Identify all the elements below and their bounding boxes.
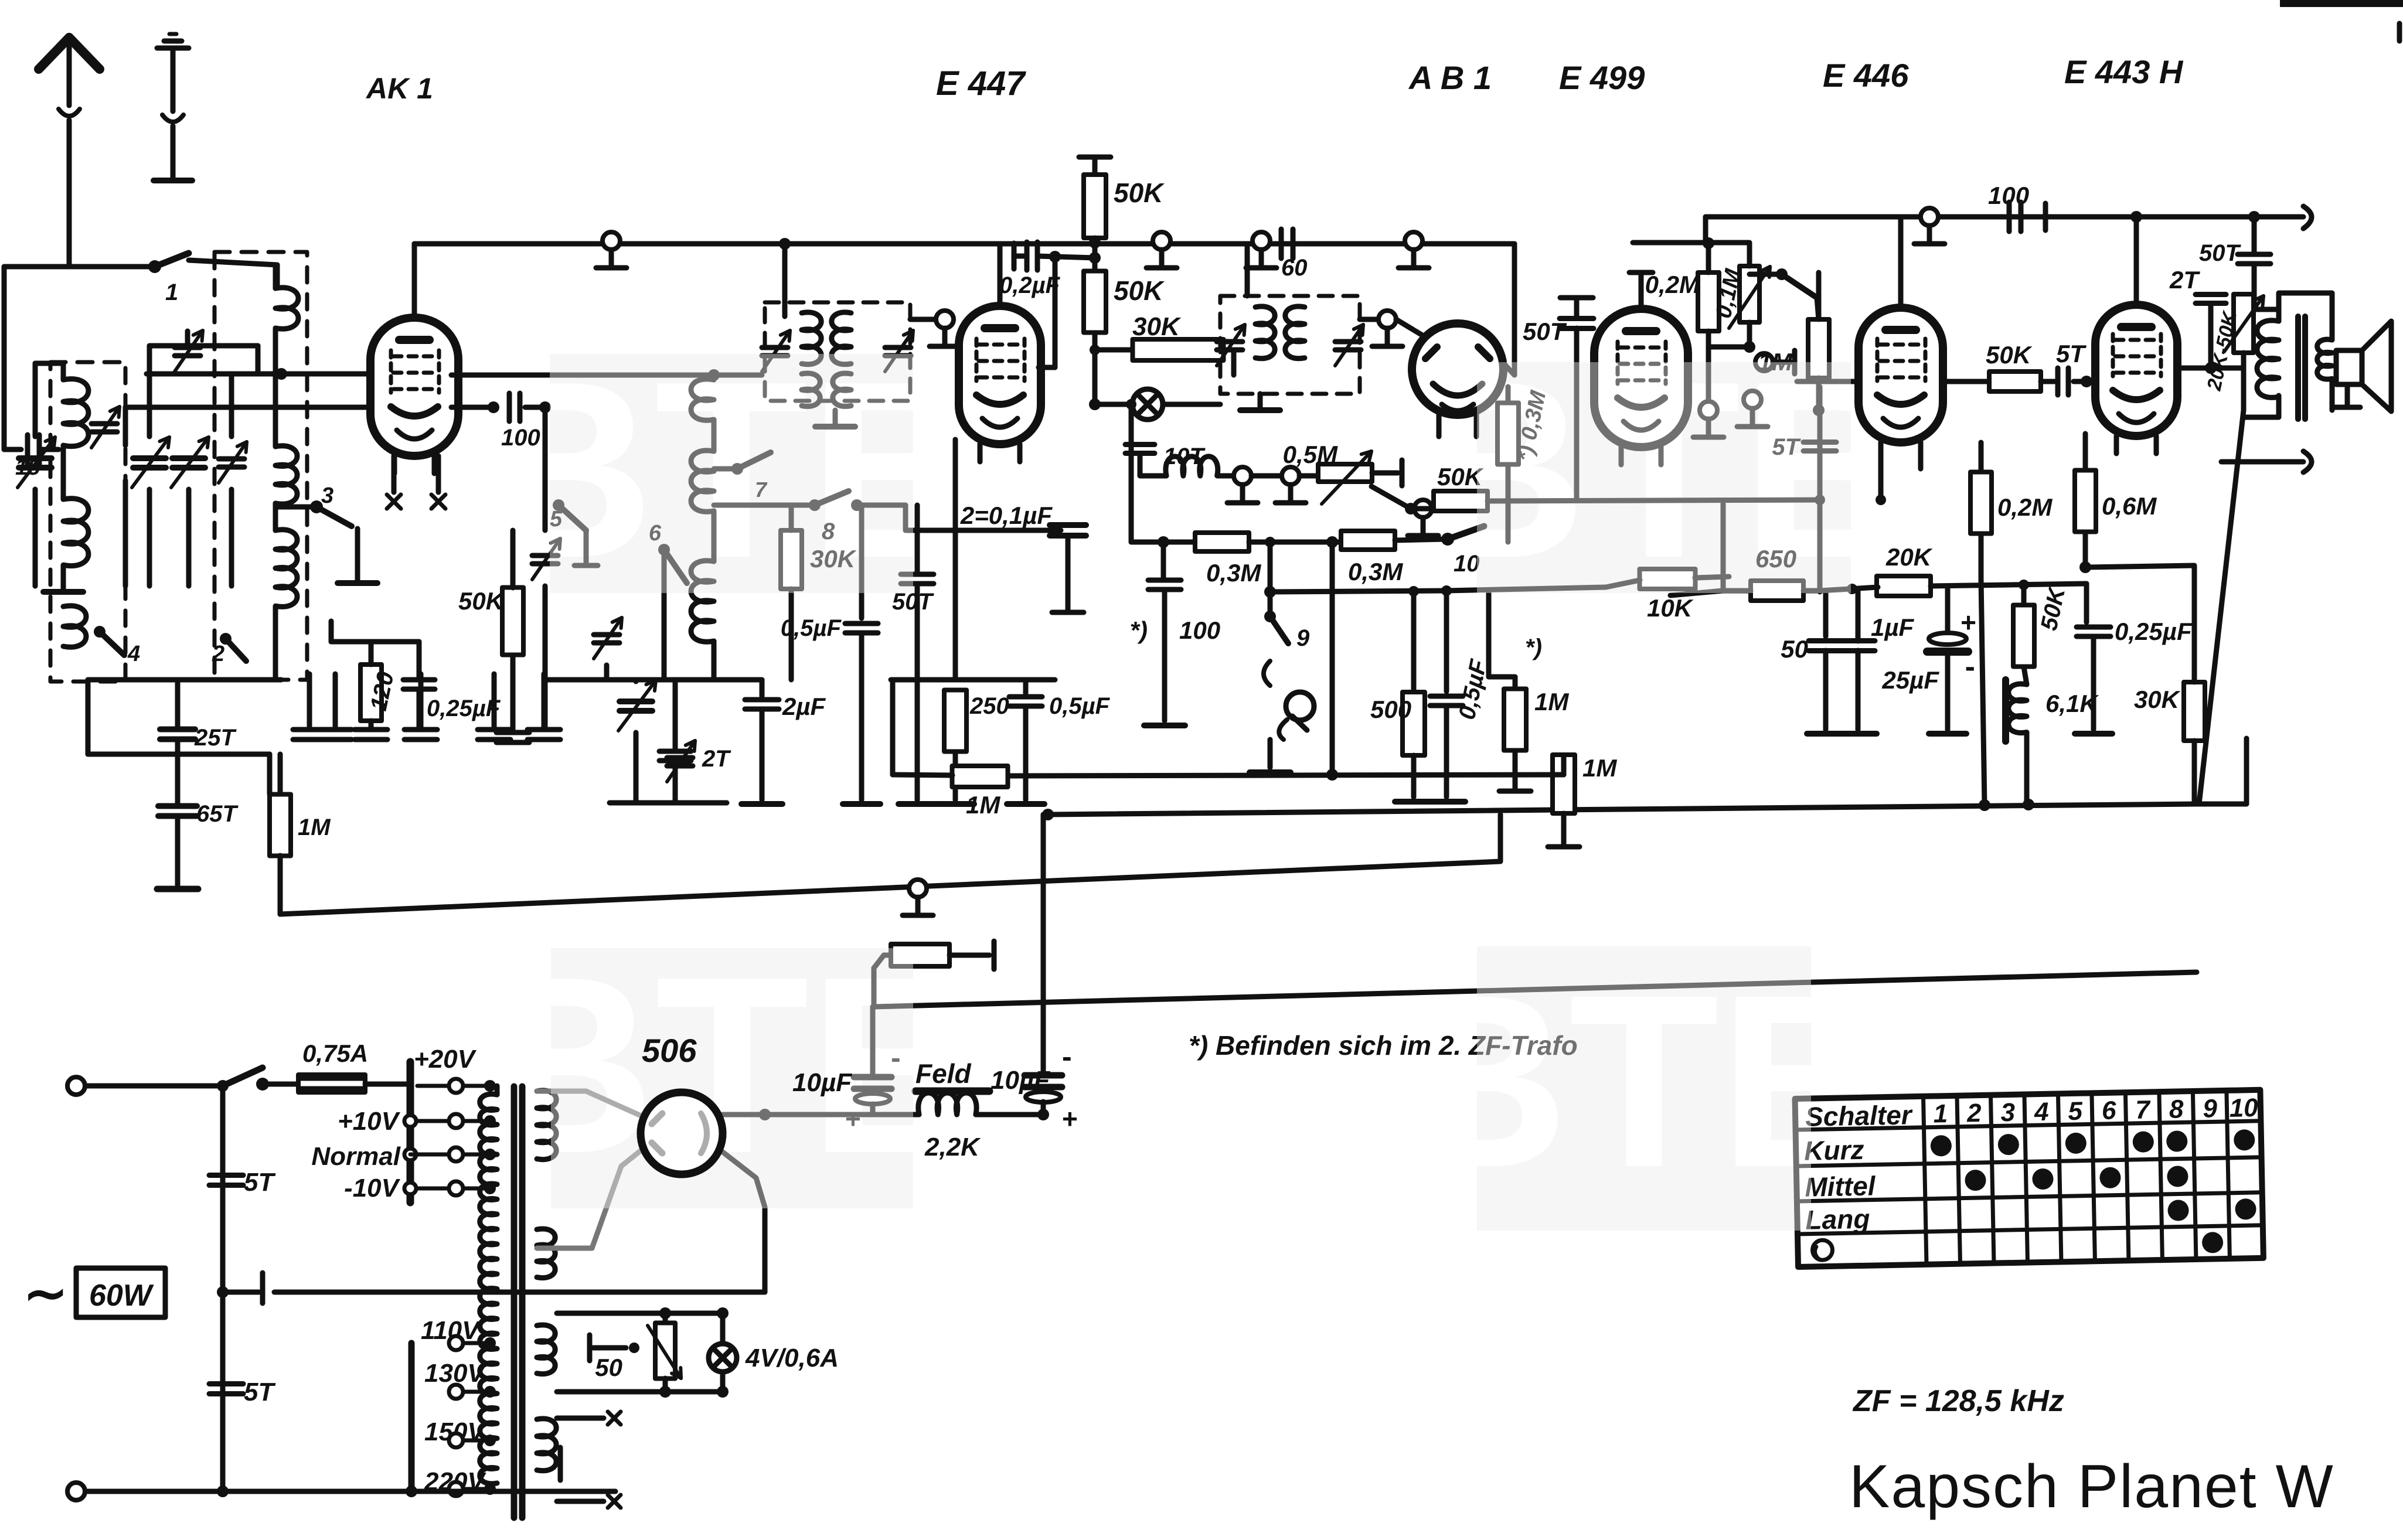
svg-text:2: 2 xyxy=(1966,1099,1982,1127)
svg-text:50K: 50K xyxy=(1437,463,1484,490)
svg-text:0,25µF: 0,25µF xyxy=(2115,618,2193,645)
svg-text:9: 9 xyxy=(2203,1094,2218,1123)
svg-text:Kurz: Kurz xyxy=(1804,1134,1864,1166)
svg-text:2,2K: 2,2K xyxy=(924,1133,981,1161)
svg-text:8: 8 xyxy=(2169,1095,2184,1123)
svg-text:Feld: Feld xyxy=(915,1058,971,1089)
svg-text:2: 2 xyxy=(212,642,224,666)
svg-text:30K: 30K xyxy=(2134,686,2181,713)
svg-text:6: 6 xyxy=(2102,1096,2117,1125)
svg-text:AK 1: AK 1 xyxy=(365,72,433,105)
svg-text:-: - xyxy=(1062,1040,1072,1073)
svg-text:1: 1 xyxy=(165,280,178,305)
svg-text:25T: 25T xyxy=(194,725,237,751)
svg-text:ZF = 128,5 kHz: ZF = 128,5 kHz xyxy=(1852,1384,2064,1418)
svg-text:0,5µF: 0,5µF xyxy=(1049,693,1111,719)
svg-text:-10V: -10V xyxy=(344,1174,401,1202)
svg-text:1M: 1M xyxy=(966,791,1000,819)
svg-text:7: 7 xyxy=(2135,1095,2152,1125)
svg-text:4: 4 xyxy=(2034,1098,2049,1126)
svg-text:3: 3 xyxy=(321,483,333,508)
svg-text:50K: 50K xyxy=(458,587,505,615)
svg-text:2T: 2T xyxy=(2169,266,2200,294)
svg-text:0,2µF: 0,2µF xyxy=(999,272,1061,298)
svg-text:65T: 65T xyxy=(196,801,239,827)
svg-text:0,2M: 0,2M xyxy=(1645,271,1700,298)
svg-text:9: 9 xyxy=(1296,625,1310,651)
svg-text:250: 250 xyxy=(969,693,1009,719)
svg-text:3: 3 xyxy=(2000,1098,2015,1127)
svg-text:*): *) xyxy=(1130,616,1148,644)
svg-text:50T: 50T xyxy=(2199,240,2241,266)
svg-text:25µF: 25µF xyxy=(1881,666,1939,694)
svg-text:5T: 5T xyxy=(244,1168,275,1197)
svg-text:4V/0,6A: 4V/0,6A xyxy=(745,1344,839,1372)
svg-text:50: 50 xyxy=(595,1354,622,1381)
svg-text:2µF: 2µF xyxy=(782,693,826,720)
svg-text:E 447: E 447 xyxy=(936,64,1026,103)
svg-text:0,3M: 0,3M xyxy=(1206,559,1261,587)
svg-text:-: - xyxy=(1965,650,1975,684)
svg-text:10K: 10K xyxy=(1647,594,1694,622)
svg-text:50K: 50K xyxy=(1114,275,1165,306)
svg-text:20K: 20K xyxy=(1885,543,1933,571)
svg-text:50T: 50T xyxy=(1523,318,1567,345)
svg-text:1M: 1M xyxy=(1582,754,1617,782)
svg-text:50K: 50K xyxy=(1986,341,2033,369)
svg-text:Schalter: Schalter xyxy=(1805,1099,1914,1132)
svg-text:0,25µF: 0,25µF xyxy=(427,696,501,721)
svg-text:5T: 5T xyxy=(2056,340,2087,367)
svg-text:E 443 H: E 443 H xyxy=(2064,53,2184,90)
svg-text:E 446: E 446 xyxy=(1823,57,1909,94)
svg-text:1: 1 xyxy=(1933,1099,1948,1128)
svg-text:60W: 60W xyxy=(89,1279,154,1313)
svg-text:50: 50 xyxy=(1781,635,1808,663)
svg-text:100: 100 xyxy=(1179,616,1220,644)
svg-text:+10V: +10V xyxy=(338,1107,401,1136)
svg-text:500: 500 xyxy=(1370,696,1411,723)
svg-text:2=0,1µF: 2=0,1µF xyxy=(960,502,1053,529)
svg-text:Normal: Normal xyxy=(311,1142,400,1171)
svg-text:+: + xyxy=(1062,1103,1078,1134)
svg-text:10: 10 xyxy=(2229,1093,2258,1123)
svg-text:∼: ∼ xyxy=(23,1265,67,1323)
svg-text:+: + xyxy=(1960,607,1976,638)
svg-text:0,3M: 0,3M xyxy=(1348,558,1403,585)
svg-text:0,75A: 0,75A xyxy=(302,1040,368,1067)
svg-text:5T: 5T xyxy=(244,1378,275,1406)
svg-text:Mittel: Mittel xyxy=(1805,1170,1876,1202)
svg-text:1M: 1M xyxy=(1534,688,1569,716)
svg-text:Kapsch Planet W: Kapsch Planet W xyxy=(1849,1453,2334,1521)
svg-text:60: 60 xyxy=(1281,255,1308,281)
svg-text:2T: 2T xyxy=(702,746,731,772)
svg-text:*): *) xyxy=(1525,635,1542,660)
svg-text:506: 506 xyxy=(642,1032,697,1069)
svg-text:0,2M: 0,2M xyxy=(1997,493,2053,521)
svg-text:30K: 30K xyxy=(1132,312,1182,341)
svg-text:1M: 1M xyxy=(298,815,331,840)
svg-text:0,5M: 0,5M xyxy=(1283,441,1338,468)
svg-text:50K: 50K xyxy=(1114,178,1165,208)
svg-text:Lang: Lang xyxy=(1805,1204,1870,1235)
svg-text:4: 4 xyxy=(127,642,140,666)
svg-text:10µF: 10µF xyxy=(792,1068,852,1097)
svg-text:5: 5 xyxy=(2068,1097,2083,1126)
svg-text:E 499: E 499 xyxy=(1559,59,1645,96)
svg-text:+20V: +20V xyxy=(414,1045,477,1074)
svg-text:100: 100 xyxy=(501,425,540,451)
svg-text:100: 100 xyxy=(1988,182,2029,209)
svg-text:10: 10 xyxy=(1454,551,1480,577)
svg-text:1µF: 1µF xyxy=(1871,614,1915,641)
svg-text:A B 1: A B 1 xyxy=(1408,59,1492,96)
svg-text:0,6M: 0,6M xyxy=(2102,492,2157,520)
